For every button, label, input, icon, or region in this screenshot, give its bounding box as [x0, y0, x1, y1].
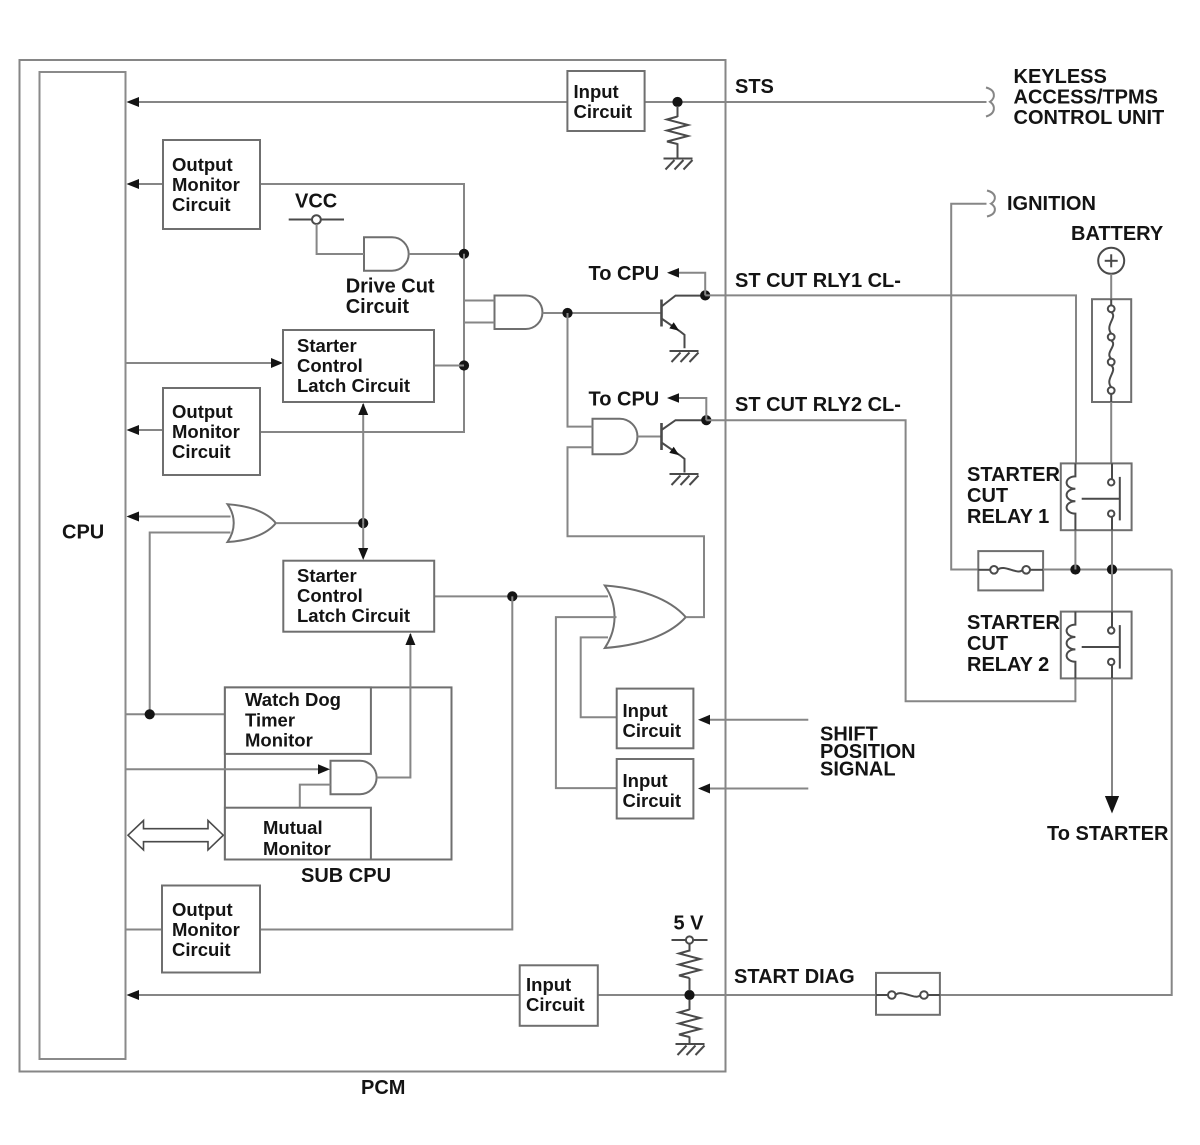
wire OMC1 to CPU [130, 183, 163, 185]
node START DIAG [684, 990, 694, 1000]
relay 2 box [1061, 612, 1132, 679]
wire node to resistor R1 [677, 106, 679, 117]
node ST CUT RLY1 [700, 290, 710, 300]
wire R3 to ground [689, 1037, 691, 1044]
relay 1 box [1061, 463, 1132, 530]
svg-text:ST CUT RLY2 CL-: ST CUT RLY2 CL- [735, 394, 901, 416]
svg-text:PCM: PCM [361, 1077, 405, 1099]
relay 2 contact [1082, 612, 1120, 679]
svg-text:RELAY 2: RELAY 2 [967, 654, 1049, 676]
wire OR U6 bottom input from input circuit IC1 [581, 637, 617, 717]
ground Q2 [670, 474, 699, 485]
svg-text:Starter: Starter [297, 335, 357, 356]
node gate U2 output [562, 308, 572, 318]
arrow into CPU from OR U4 wire [127, 512, 140, 522]
fusible link box [1092, 299, 1131, 402]
svg-text:Circuit: Circuit [526, 994, 585, 1015]
wire mutual monitor to sub AND bottom input [300, 785, 331, 808]
wire ST CUT RLY1 CL- [705, 295, 1076, 463]
input circuit box top [567, 71, 644, 131]
svg-text:Control: Control [297, 585, 363, 606]
svg-text:Watch Dog: Watch Dog [245, 689, 341, 710]
arrow into sub AND [318, 764, 330, 774]
resistor R1 [667, 117, 688, 145]
node battery rail [1107, 564, 1117, 574]
OR gate U6 shift [605, 586, 686, 649]
svg-text:Monitor: Monitor [172, 919, 240, 940]
svg-text:Latch Circuit: Latch Circuit [297, 605, 410, 626]
svg-text:Output: Output [172, 154, 233, 175]
input circuit box shift 1 [617, 689, 694, 749]
output monitor circuit box 3 [162, 886, 260, 973]
wire drive cut gate output [409, 253, 464, 255]
wire gate U3 output to transistor Q2 base [638, 436, 661, 438]
node SCL1 output [459, 360, 469, 370]
wire R2 to node [689, 978, 691, 991]
wire fusible link to relay1 [1110, 402, 1112, 463]
svg-text:KEYLESS: KEYLESS [1014, 66, 1107, 88]
svg-text:VCC: VCC [295, 191, 337, 213]
svg-text:Input: Input [623, 700, 668, 721]
AND gate U1 drive cut [364, 237, 409, 270]
node watch dog wire [145, 709, 155, 719]
wire 5V to resistor R2 [689, 944, 691, 952]
wire To CPU 2 [678, 398, 706, 420]
double arrow CPU to SUB CPU [128, 821, 223, 850]
wire shift position signal 1 [709, 719, 808, 721]
wire CPU to SCL1 [127, 362, 273, 364]
wire OMC1 right to drive-cut node [260, 184, 464, 249]
svg-text:ACCESS/TPMS: ACCESS/TPMS [1014, 87, 1158, 109]
wire stub gate U2 input bottom [464, 322, 495, 324]
arrowhead Q1 emitter [669, 322, 679, 331]
wire relay1 contact bottom to node [1111, 530, 1113, 569]
arrow down into SCL2 [358, 548, 368, 560]
wire node up to SCL1 [362, 404, 364, 523]
wire SCL1 output [434, 365, 464, 367]
wire relay1 coil bottom to node [1074, 530, 1076, 569]
wire VCC to drive cut gate [317, 224, 364, 254]
starter control latch circuit box 1 [283, 330, 434, 402]
node SCL2 output [507, 591, 517, 601]
svg-text:Output: Output [172, 401, 233, 422]
wire CPU to OR U4 top input [130, 516, 231, 518]
wire battery to fusible link [1110, 274, 1112, 299]
svg-text:START DIAG: START DIAG [734, 966, 855, 988]
resistor R3 [679, 1010, 700, 1038]
node ST CUT RLY2 [701, 415, 711, 425]
wire OR U4 bottom input [150, 533, 231, 715]
SUB CPU container box [225, 687, 452, 859]
wire node down to gate U3 top input [568, 313, 593, 427]
output monitor circuit box 1 [163, 140, 260, 229]
wire To CPU 1 [678, 273, 705, 296]
svg-text:Drive Cut: Drive Cut [346, 276, 435, 298]
connector squiggle keyless [986, 88, 994, 117]
ground 5V divider [676, 1044, 705, 1055]
wire R1 to ground [677, 143, 679, 157]
fuse F1 element [978, 566, 1043, 574]
svg-text:Circuit: Circuit [623, 720, 682, 741]
svg-text:Input: Input [526, 974, 571, 995]
wire vertical drive-cut node down to OMC2 wire [260, 254, 464, 432]
svg-text:STS: STS [735, 76, 774, 98]
resistor R2 [679, 951, 700, 979]
arrow to starter [1105, 796, 1119, 814]
svg-text:ST CUT RLY1 CL-: ST CUT RLY1 CL- [735, 270, 901, 292]
5V terminal [672, 936, 708, 943]
mutual monitor box [225, 808, 371, 860]
transistor Q1 [662, 296, 701, 349]
wire node down to OMC3 [260, 596, 512, 929]
arrow into CPU on STS wire [127, 97, 140, 107]
wire gate U3 bottom input from OR U6 output [568, 447, 705, 617]
svg-text:Input: Input [574, 81, 619, 102]
node drive cut output [459, 249, 469, 259]
arrow into CPU from OMC1 [127, 179, 140, 189]
svg-text:Mutual: Mutual [263, 817, 323, 838]
fusible link element [1108, 299, 1115, 402]
wire node to resistor R3 [689, 1000, 691, 1011]
svg-text:Circuit: Circuit [172, 939, 231, 960]
output monitor circuit box 2 [163, 388, 260, 475]
svg-text:BATTERY: BATTERY [1071, 223, 1164, 245]
relay 2 coil [1067, 612, 1076, 679]
svg-text:Monitor: Monitor [263, 838, 331, 859]
watch dog timer monitor box [225, 687, 371, 754]
arrow into input circuit IC2 [698, 784, 710, 794]
fuse F2 element [876, 991, 940, 999]
wire IGNITION down to fuse F1 [951, 204, 986, 570]
wire ST CUT RLY2 CL- [706, 420, 1075, 701]
relay 1 contact [1082, 463, 1120, 530]
wire OMC3 to CPU [127, 929, 164, 931]
CPU box [40, 72, 126, 1059]
arrow To CPU 1 [667, 268, 679, 278]
svg-text:STARTER: STARTER [967, 464, 1061, 486]
wire CPU to watch dog [127, 713, 225, 715]
ground Q1 [670, 351, 699, 362]
svg-text:SUB CPU: SUB CPU [301, 865, 391, 887]
wire stub gate U2 input top [464, 300, 495, 302]
relay 1 coil [1067, 463, 1076, 530]
svg-text:RELAY 1: RELAY 1 [967, 506, 1049, 528]
wire CPU to sub AND top input [127, 768, 321, 770]
arrow up into SCL1 [358, 403, 368, 415]
wire fuse F1 to relays and right rail [1043, 569, 1172, 571]
wire relay2 to starter [1111, 678, 1113, 799]
wire node down to SCL2 [362, 523, 364, 552]
svg-text:STARTER: STARTER [967, 612, 1061, 634]
svg-text:CONTROL UNIT: CONTROL UNIT [1014, 107, 1165, 129]
wire gate U2 output to transistor Q1 base [543, 312, 661, 314]
svg-text:5 V: 5 V [674, 913, 705, 935]
wire STS horizontal [130, 101, 987, 103]
svg-text:Input: Input [623, 770, 668, 791]
battery symbol [1098, 248, 1124, 274]
svg-text:To CPU: To CPU [589, 389, 660, 411]
connector squiggle ignition [987, 191, 995, 217]
input circuit box start diag [520, 965, 598, 1026]
svg-text:IGNITION: IGNITION [1007, 193, 1096, 215]
svg-text:CUT: CUT [967, 485, 1008, 507]
VCC terminal [289, 215, 344, 224]
wire OR U6 middle input from input circuit IC2 [556, 617, 617, 788]
svg-text:Latch Circuit: Latch Circuit [297, 375, 410, 396]
svg-text:Control: Control [297, 355, 363, 376]
arrow into SCL1 [271, 358, 283, 368]
svg-text:Circuit: Circuit [346, 296, 410, 318]
fuse F1 box [978, 551, 1043, 590]
OR gate U4 cpu [228, 504, 276, 542]
svg-text:Timer: Timer [245, 710, 295, 731]
arrow up into SCL2 bottom [405, 633, 415, 645]
svg-text:Starter: Starter [297, 565, 357, 586]
AND gate U5 sub cpu [331, 761, 377, 794]
wire OR U4 output [276, 522, 363, 524]
AND gate U2 rly1 [495, 296, 543, 330]
svg-text:To CPU: To CPU [589, 263, 660, 285]
svg-text:SIGNAL: SIGNAL [820, 759, 896, 781]
wire node down to relay2 contact top [1111, 570, 1113, 612]
AND gate U3 rly2 [593, 419, 638, 455]
wire sub AND output up to SCL2 [377, 634, 411, 778]
transistor Q2 [662, 420, 702, 472]
arrow into input circuit IC1 [698, 715, 710, 725]
wire OMC2 to CPU [130, 429, 163, 431]
input circuit box shift 2 [617, 759, 694, 819]
svg-text:Circuit: Circuit [172, 194, 231, 215]
svg-text:To STARTER: To STARTER [1047, 823, 1169, 845]
wire shift position signal 2 [709, 788, 808, 790]
svg-text:Circuit: Circuit [623, 790, 682, 811]
svg-text:CPU: CPU [62, 522, 104, 544]
fuse F2 box start diag [876, 973, 940, 1015]
node relay1 coil return [1070, 564, 1080, 574]
arrow To CPU 2 [667, 393, 679, 403]
wire START DIAG [130, 570, 1172, 996]
node OR U4 output [358, 518, 368, 528]
svg-text:Monitor: Monitor [172, 174, 240, 195]
svg-text:Output: Output [172, 899, 233, 920]
svg-text:Circuit: Circuit [574, 101, 633, 122]
svg-text:Monitor: Monitor [172, 421, 240, 442]
arrow into CPU from OMC2 [127, 425, 140, 435]
svg-text:CUT: CUT [967, 633, 1008, 655]
node STS pulldown [672, 97, 682, 107]
svg-text:Monitor: Monitor [245, 730, 313, 751]
PCM enclosure box [20, 60, 726, 1072]
wire SCL2 output to OR U6 [434, 595, 608, 597]
arrowhead Q2 emitter [669, 447, 679, 456]
starter control latch circuit box 2 [283, 561, 434, 632]
ground STS [664, 159, 693, 170]
arrow into CPU on START DIAG [127, 990, 140, 1000]
svg-text:Circuit: Circuit [172, 441, 231, 462]
